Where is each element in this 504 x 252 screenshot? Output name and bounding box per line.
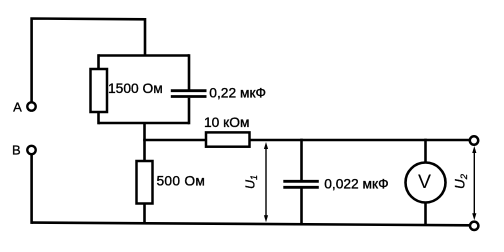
wire: box right side below capacitor C1	[188, 98, 191, 125]
arrow U2 (double headed, between output terminals)	[472, 146, 476, 220]
svg-text:В: В	[12, 143, 21, 158]
wire: terminal A up, across top, down to parallel-box top	[32, 19, 145, 103]
wire: terminal B down to bottom rail	[30, 155, 33, 224]
wire: box left side below resistor R1	[97, 112, 100, 124]
wire: resistor R2 bottom to bottom rail	[143, 204, 146, 225]
wire: voltmeter top stub	[424, 139, 427, 162]
svg-text:500 Ом: 500 Ом	[157, 173, 206, 188]
wire: capacitor C2 bottom stub	[300, 189, 303, 226]
wire: parallel box bottom side	[99, 122, 190, 125]
svg-text:0,022 мкФ: 0,022 мкФ	[324, 176, 388, 191]
terminal output bottom-right	[470, 222, 478, 230]
arrow U1 (double headed, between rails)	[264, 142, 268, 222]
voltmeter V1 circle	[406, 163, 446, 203]
capacitor C1 top plate	[171, 89, 207, 92]
terminal output top-right	[470, 136, 478, 144]
terminal B	[27, 146, 35, 154]
wire: capacitor C2 top stub	[300, 139, 303, 180]
terminal A	[27, 102, 35, 110]
wire: bottom rail from B corner to right terminal	[32, 223, 470, 226]
svg-text:V: V	[418, 171, 431, 193]
svg-text:1500 Ом: 1500 Ом	[108, 81, 163, 96]
wire: box right side above capacitor C1	[188, 54, 191, 89]
wire: node to resistor R3 left	[143, 139, 206, 142]
capacitor C2 bottom plate	[283, 186, 319, 189]
wire: parallel box top side	[99, 54, 190, 57]
svg-text:10 кОм: 10 кОм	[204, 115, 249, 130]
svg-text:А: А	[13, 99, 22, 114]
resistor R3 body (10 кОм)	[206, 132, 250, 146]
resistor R1 body	[91, 69, 108, 112]
capacitor C1 bottom plate	[171, 95, 207, 98]
wire: voltmeter bottom stub	[424, 204, 427, 227]
wire: box bottom junction down to resistor R2	[143, 123, 146, 161]
wire: resistor R3 right to terminal, top output rail	[250, 139, 470, 142]
svg-text:0,22 мкФ: 0,22 мкФ	[209, 86, 266, 101]
wire: box left side above resistor R1	[97, 54, 100, 69]
resistor R2 body (500 Ом)	[137, 161, 153, 204]
capacitor C2 top plate	[283, 180, 319, 183]
